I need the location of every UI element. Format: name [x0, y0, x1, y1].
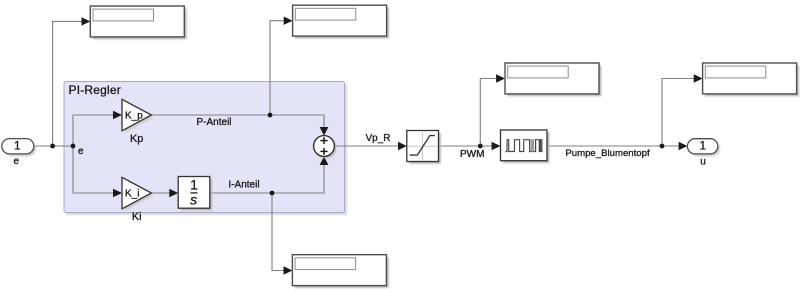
svg-text:Ki: Ki	[132, 211, 142, 223]
svg-text:Pumpe_Blumentopf: Pumpe_Blumentopf	[565, 148, 650, 159]
svg-text:PWM: PWM	[460, 149, 484, 160]
svg-text:Kp: Kp	[130, 133, 143, 145]
svg-text:e: e	[14, 156, 20, 167]
svg-text:1: 1	[190, 177, 198, 193]
svg-text:K_i: K_i	[125, 189, 139, 200]
svg-text:s: s	[190, 192, 197, 208]
svg-text:1: 1	[700, 139, 707, 153]
svg-text:P-Anteil: P-Anteil	[196, 117, 231, 128]
svg-text:1: 1	[14, 139, 21, 153]
svg-text:u: u	[700, 156, 706, 167]
svg-text:I-Anteil: I-Anteil	[228, 179, 259, 190]
svg-text:PI-Regler: PI-Regler	[69, 83, 121, 97]
svg-text:e: e	[78, 146, 84, 157]
svg-text:Vp_R: Vp_R	[365, 133, 390, 144]
svg-text:K_p: K_p	[125, 111, 143, 122]
